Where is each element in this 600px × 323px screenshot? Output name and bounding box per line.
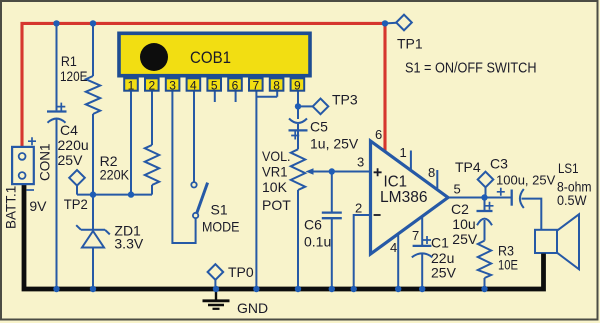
svg-text:5: 5 (211, 78, 218, 92)
svg-text:25V: 25V (431, 265, 457, 281)
svg-text:MODE: MODE (202, 219, 240, 235)
svg-text:3.3V: 3.3V (114, 236, 143, 252)
svg-text:6: 6 (232, 78, 239, 92)
svg-text:C4: C4 (60, 122, 78, 138)
svg-text:R1: R1 (61, 53, 77, 69)
svg-text:7: 7 (252, 78, 259, 92)
svg-text:3: 3 (357, 155, 364, 170)
svg-text:5: 5 (454, 182, 461, 197)
svg-text:CON1: CON1 (38, 143, 53, 181)
svg-text:POT: POT (262, 197, 291, 213)
svg-text:25V: 25V (58, 152, 84, 168)
svg-text:9: 9 (294, 78, 301, 92)
svg-text:S1: S1 (211, 202, 228, 218)
svg-text:BATT.1: BATT.1 (4, 186, 19, 229)
svg-text:22u: 22u (431, 250, 454, 266)
svg-text:COB1: COB1 (190, 48, 231, 67)
svg-text:10K: 10K (262, 179, 288, 195)
svg-text:0.5W: 0.5W (557, 192, 587, 208)
svg-text:GND: GND (237, 300, 268, 316)
svg-text:C1: C1 (431, 234, 449, 250)
svg-text:1: 1 (400, 145, 407, 160)
svg-text:1: 1 (128, 78, 135, 92)
svg-text:4: 4 (190, 78, 197, 92)
svg-text:220K: 220K (100, 167, 130, 183)
svg-text:10E: 10E (498, 257, 518, 273)
svg-text:10u: 10u (452, 216, 475, 232)
svg-text:TP0: TP0 (228, 264, 254, 280)
svg-text:C3: C3 (490, 156, 508, 172)
svg-text:220u: 220u (58, 137, 89, 153)
svg-text:IC1: IC1 (384, 174, 408, 191)
svg-text:TP2: TP2 (64, 196, 88, 212)
svg-text:100u, 25V: 100u, 25V (496, 173, 556, 188)
svg-text:6: 6 (375, 127, 382, 142)
svg-text:4: 4 (390, 240, 397, 255)
svg-text:C2: C2 (451, 201, 469, 217)
svg-text:2: 2 (148, 78, 155, 92)
svg-text:TP4: TP4 (455, 159, 481, 175)
svg-text:1u, 25V: 1u, 25V (310, 136, 359, 152)
svg-text:S1 = ON/OFF SWITCH: S1 = ON/OFF SWITCH (405, 60, 537, 77)
svg-text:8: 8 (273, 78, 280, 92)
svg-text:VR1: VR1 (262, 164, 288, 180)
svg-text:LS1: LS1 (558, 160, 579, 176)
svg-text:VOL.: VOL. (262, 148, 291, 164)
svg-text:LM386: LM386 (380, 189, 428, 206)
svg-text:25V: 25V (452, 231, 478, 247)
svg-text:7: 7 (412, 228, 419, 243)
svg-text:C6: C6 (304, 217, 322, 233)
svg-text:TP3: TP3 (332, 92, 358, 108)
svg-text:8: 8 (428, 165, 435, 180)
svg-text:9V: 9V (29, 198, 47, 214)
svg-text:120E: 120E (60, 68, 88, 84)
svg-text:0.1u: 0.1u (304, 234, 331, 250)
svg-text:TP1: TP1 (397, 36, 423, 52)
svg-text:C5: C5 (310, 119, 328, 135)
svg-text:3: 3 (169, 78, 176, 92)
svg-text:2: 2 (355, 201, 362, 216)
